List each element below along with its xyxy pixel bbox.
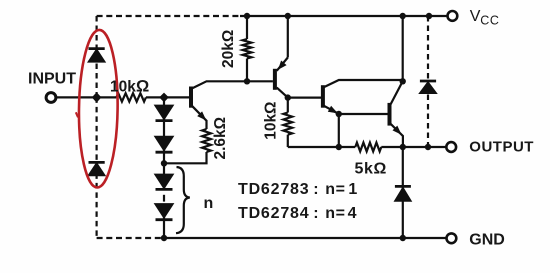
svg-text:5kΩ: 5kΩ xyxy=(355,160,387,177)
svg-text::: : xyxy=(313,205,318,222)
svg-text::: : xyxy=(313,181,318,198)
svg-text:=: = xyxy=(336,205,345,222)
svg-text:20kΩ: 20kΩ xyxy=(220,30,237,68)
svg-text:1: 1 xyxy=(348,181,357,198)
svg-text:TD62783: TD62783 xyxy=(238,181,309,198)
svg-text:4: 4 xyxy=(348,205,357,222)
svg-text:n: n xyxy=(325,205,335,222)
svg-text:V: V xyxy=(470,8,481,25)
svg-text:INPUT: INPUT xyxy=(28,71,76,88)
svg-text:10k: 10k xyxy=(110,79,136,96)
svg-text:10kΩ: 10kΩ xyxy=(263,102,280,140)
svg-text:CC: CC xyxy=(480,14,499,28)
svg-text:GND: GND xyxy=(469,232,505,249)
svg-text:OUTPUT: OUTPUT xyxy=(469,139,534,156)
svg-text:n: n xyxy=(325,181,335,198)
svg-text:2.6kΩ: 2.6kΩ xyxy=(212,117,229,160)
svg-text:n: n xyxy=(204,195,214,212)
svg-text:TD62784: TD62784 xyxy=(238,205,309,222)
svg-text:=: = xyxy=(336,181,345,198)
svg-text:Ω: Ω xyxy=(136,78,149,96)
